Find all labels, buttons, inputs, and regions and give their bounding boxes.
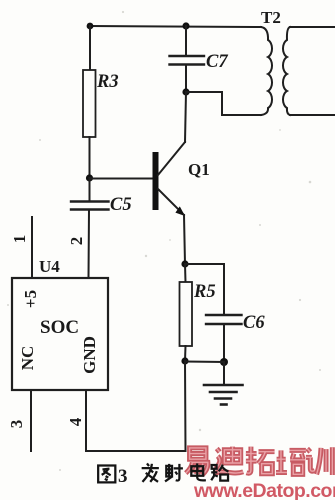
ground [204,385,243,405]
wire node D to C6 branch [185,264,224,315]
resistor R3 [83,70,96,137]
transformer T2 primary winding [261,27,272,115]
watermark 易迪拓培训 (red, hand-drawn CJK strokes) [186,447,335,500]
caption 图3 发射电路 (figure caption, hand-drawn CJK strokes) [98,463,228,487]
wire C6 bottom to node F [223,324,225,362]
wire node E to node F [185,361,224,364]
svg-text:SOC: SOC [40,317,79,338]
svg-text:2: 2 [67,237,86,246]
wire R5 bottom to node E [184,346,187,361]
wire secondary top lead [290,26,335,28]
node A (junction dot at R3 top) [87,23,94,30]
capacitor C5 [71,202,109,210]
svg-text:+5: +5 [21,290,40,308]
wire secondary bottom lead [290,114,335,116]
capacitor C6 [206,315,242,324]
svg-text:C5: C5 [110,195,132,215]
svg-text:U4: U4 [39,257,60,276]
wire C7 bottom to collector node [185,65,187,93]
svg-text:Q1: Q1 [188,160,210,179]
wire node D down to R5 [184,264,187,282]
svg-text:GND: GND [80,336,99,374]
wire pin 3 lead [30,390,32,451]
svg-text:3: 3 [118,466,128,487]
glyph 电 [191,463,206,480]
node C (junction dot collector/C7) [182,88,189,95]
svg-text:C6: C6 [243,313,265,333]
node E (junction dot R5 bottom) [181,357,188,364]
wire base node down to C5 [89,178,91,201]
wire R3 bottom to base node [89,137,91,178]
wire top rail from R3 node to transformer primary top [90,26,261,27]
svg-text:1: 1 [10,235,29,244]
wire top rail down to C7 [185,26,187,56]
node B (junction dot base/C5) [86,174,93,181]
IC U4 body [12,278,108,390]
glyph 射 [165,464,183,482]
node F (junction dot ground) [220,358,228,366]
transformer T2 secondary winding [283,27,290,115]
node D (junction dot R5 top / C6 branch) [181,260,188,267]
resistor R5 [180,282,193,346]
wire from node A down to R3 [89,26,91,70]
svg-text:R3: R3 [96,72,119,92]
svg-text:C7: C7 [206,52,228,72]
capacitor C7 branch: node dot at top rail [182,22,189,29]
wire base node to Q1 base [90,178,154,180]
svg-text:R5: R5 [193,282,216,302]
glyph 发 [142,463,159,481]
svg-text:NC: NC [18,346,37,371]
wire collector node to transformer primary bottom (step) [186,92,261,115]
wire pin 4 lead to emitter return [86,390,186,451]
capacitor C7 [170,56,205,65]
svg-text:3: 3 [7,420,26,429]
glyph 路 [211,465,228,481]
glyph 图 [98,466,115,483]
wire C5 bottom / pin 2 lead into U4 [88,210,91,279]
transistor Q1 [153,92,187,264]
svg-text:www.eDatop.com: www.eDatop.com [193,480,335,500]
svg-text:4: 4 [66,417,85,426]
wire node F to ground [223,362,225,385]
wire pin 1 lead [31,217,33,278]
svg-text:T2: T2 [261,8,281,27]
wire node E down to pin-4 return [184,361,187,451]
